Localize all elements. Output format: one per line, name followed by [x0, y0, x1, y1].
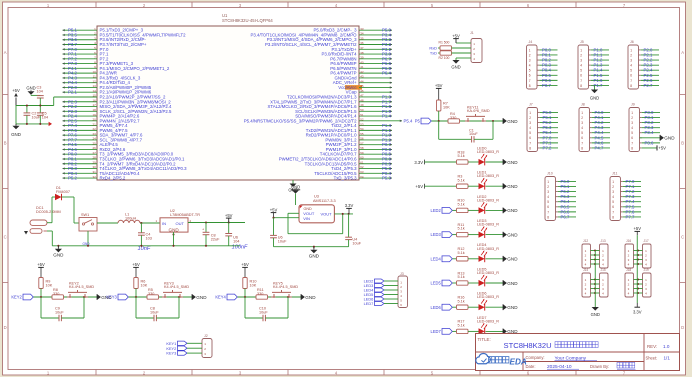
svg-text:J5: J5 [580, 40, 584, 44]
svg-text:22uF: 22uF [211, 238, 220, 242]
svg-text:5: 5 [547, 200, 549, 204]
U1 pin 14 (P2.1) [63, 89, 152, 95]
power flag +5V (J9 pin 8) [642, 145, 666, 150]
svg-text:1: 1 [529, 48, 531, 52]
capacitor C6 104 [225, 223, 239, 246]
svg-text:TxD_3/P5.3: TxD_3/P5.3 [334, 176, 358, 181]
svg-text:J1: J1 [470, 31, 474, 35]
svg-text:6: 6 [529, 136, 531, 140]
MCU U1 body [97, 26, 359, 180]
node LED5 flag (J3) [364, 292, 398, 297]
wire key row [34, 296, 98, 298]
ground flag (LED5) [503, 280, 507, 286]
svg-text:EDA: EDA [510, 357, 527, 366]
svg-text:D: D [4, 325, 7, 330]
ground flag (U3 rail) [313, 247, 315, 250]
wire J5 pin 7 net P1.6 [591, 78, 609, 83]
regulator U2 L78M05ABDT-TR [156, 209, 201, 232]
node LED7 flag (J3) [364, 301, 398, 306]
svg-text:44: 44 [360, 79, 364, 83]
svg-text:5: 5 [580, 69, 582, 73]
op MCU U1 designator [222, 13, 273, 23]
wire J5 pin 1 net P1.0 [591, 47, 609, 52]
ground under U1 [288, 180, 297, 193]
svg-text:K4.4*4.5_SMD: K4.4*4.5_SMD [69, 285, 94, 289]
node LED7 / LED row LED7 [431, 329, 457, 335]
wire J8 pin 3 net P4.2 [592, 120, 610, 125]
svg-text:12: 12 [92, 79, 96, 83]
svg-text:VOUT: VOUT [303, 211, 315, 216]
wire J11 pin 5 net P7.4 [623, 199, 641, 204]
U1 pin 64 (TxD_3) [334, 175, 392, 181]
svg-text:STC8H8K32U: STC8H8K32U [504, 341, 552, 350]
svg-text:3.3V: 3.3V [414, 160, 423, 165]
svg-text:IN: IN [162, 221, 166, 226]
svg-text:3: 3 [580, 58, 582, 62]
connector J8 [579, 103, 592, 152]
svg-text:8: 8 [631, 146, 633, 150]
node LED2 flag (J3) [364, 279, 398, 284]
svg-text:REV:: REV: [647, 344, 657, 349]
DrawnBy field [590, 362, 636, 369]
U1 pin 33 (P5.0) [314, 27, 392, 33]
connector J5 [578, 40, 591, 89]
svg-text:7: 7 [631, 141, 633, 145]
svg-text:8: 8 [529, 84, 531, 88]
wire J11 pin 2 net P7.1 [623, 184, 641, 189]
U1 pin 52 (P5.4) [244, 118, 413, 124]
svg-text:J19: J19 [644, 268, 649, 272]
wire key row [129, 296, 193, 298]
capacitor C1 10uF [439, 121, 493, 143]
svg-text:4: 4 [547, 195, 549, 199]
svg-text:5: 5 [612, 200, 614, 204]
inductor L1 100uH [118, 212, 140, 223]
svg-text:J10: J10 [547, 172, 553, 176]
wire J5 pin 3 net P1.2 [591, 58, 609, 63]
U1 pin 32 (RxD4_2) [63, 175, 126, 181]
svg-text:19: 19 [92, 113, 96, 117]
svg-text:63: 63 [360, 170, 364, 174]
U1 pin 38 (P3.0) [322, 51, 393, 57]
node LED6 flag (J3) [364, 297, 398, 302]
svg-text:1: 1 [581, 111, 583, 115]
svg-text:VIN: VIN [303, 216, 310, 221]
svg-text:41: 41 [360, 65, 364, 69]
connector J16 [625, 239, 634, 268]
wire J9 pin 4 net P3.3 [642, 125, 660, 130]
wire J6 pin 7 net P2.6 [641, 78, 659, 83]
svg-text:2: 2 [547, 185, 549, 189]
svg-text:+5V: +5V [452, 33, 460, 38]
ground flag (U3 top) [291, 185, 300, 205]
wire diode to SW1 [62, 197, 80, 223]
wire U3 vout loop [288, 213, 343, 233]
svg-text:R2 100: R2 100 [439, 56, 450, 60]
svg-text:J11: J11 [612, 172, 618, 176]
power flag +5V (KEY3 circuit) [132, 262, 140, 278]
svg-text:KEY4: KEY4 [215, 295, 226, 300]
svg-text:10uF: 10uF [55, 310, 64, 314]
svg-text:5: 5 [529, 69, 531, 73]
svg-text:10nF: 10nF [138, 246, 151, 252]
node KEY3 flag (J2) [166, 351, 202, 356]
node LED2 / LED row LED2 [431, 208, 457, 214]
svg-text:SW1: SW1 [81, 213, 89, 217]
wire J6 pin 4 net P2.3 [641, 63, 659, 68]
LED LED7 [477, 316, 503, 335]
svg-text:P6.7: P6.7 [561, 214, 570, 219]
svg-text:J16: J16 [626, 239, 631, 243]
wire J11 pin 3 net P7.2 [623, 189, 641, 194]
wire bottom of cluster [16, 106, 49, 124]
U1 pin 19 (PWM4P_2) [63, 113, 140, 119]
wire J8 pin 1 net P4.0 [592, 110, 610, 115]
ground flag (cluster bottom) [11, 124, 21, 137]
svg-text:330: 330 [450, 116, 456, 120]
svg-text:32: 32 [92, 175, 96, 179]
svg-text:31: 31 [92, 170, 96, 174]
resistor R7 10K [437, 100, 451, 121]
wire J6 pin 6 net P2.5 [641, 73, 659, 78]
svg-text:J13: J13 [601, 239, 606, 243]
svg-text:P3.4: P3.4 [645, 130, 654, 135]
svg-text:7: 7 [581, 141, 583, 145]
capacitor C2 22uF [202, 223, 220, 246]
wire J8 pin 5 net P4.4 [592, 130, 610, 135]
key switch KEY5 [271, 296, 276, 298]
svg-text:57: 57 [360, 141, 364, 145]
resistor R11 330 [256, 288, 268, 299]
svg-text:5.1k: 5.1k [458, 324, 465, 328]
power flag +5V (U2 out) [228, 218, 230, 222]
svg-text:J12: J12 [583, 239, 588, 243]
svg-text:GND: GND [591, 312, 600, 317]
resistor R12 5.1k [457, 247, 479, 261]
svg-text:LED4: LED4 [431, 256, 442, 261]
svg-text:+5V: +5V [225, 213, 233, 218]
connector J18 [625, 268, 634, 297]
svg-text:8: 8 [547, 215, 549, 219]
U1 pin 46 (VCap) [346, 89, 392, 95]
svg-text:KA-6*6_SMD: KA-6*6_SMD [467, 109, 490, 113]
svg-text:C: C [4, 235, 7, 240]
resistor R10 5.1k [457, 199, 479, 213]
svg-text:53: 53 [360, 122, 364, 126]
ground flag (J9 pin 6) [640, 135, 676, 141]
svg-text:34: 34 [360, 32, 364, 36]
key switch KEY11 [465, 120, 470, 122]
svg-text:GND: GND [305, 295, 316, 300]
U1 pin 25 (ALE) [63, 141, 119, 147]
svg-text:1: 1 [612, 180, 614, 184]
svg-text:A: A [681, 50, 684, 55]
wire J4 pin 5 net P0.4 [539, 68, 557, 73]
U1 pin 35 (P3.3) [267, 36, 392, 42]
REV field [647, 344, 670, 349]
svg-text:10K: 10K [46, 283, 53, 287]
svg-text:LED-0803_R: LED-0803_R [477, 223, 499, 227]
node LED3 / LED row LED3 [431, 232, 457, 238]
wire J8 pin 8 net P4.7 [592, 145, 610, 150]
wire J5 pin 8 net P1.7 [591, 83, 609, 88]
ground flag (KEY5) [301, 294, 305, 300]
LED LED2 [477, 195, 503, 214]
svg-text:GND: GND [451, 65, 460, 70]
svg-text:26: 26 [92, 146, 96, 150]
connector J11 [610, 172, 623, 221]
svg-text:6: 6 [529, 74, 531, 78]
svg-text:4: 4 [612, 195, 614, 199]
svg-text:GND: GND [507, 232, 518, 237]
node KEY2 flag (J2) [166, 346, 202, 351]
svg-text:3: 3 [547, 190, 549, 194]
svg-text:40: 40 [360, 60, 364, 64]
key switch KEY3 [162, 296, 167, 298]
svg-text:10K: 10K [443, 105, 450, 109]
capacitor U6 10uF [270, 218, 287, 247]
diode D1 FM4007 [55, 186, 70, 200]
svg-text:OUT: OUT [176, 221, 185, 226]
svg-text:AMS1117-3.3: AMS1117-3.3 [313, 199, 336, 203]
svg-text:+5V: +5V [241, 262, 249, 267]
svg-text:RxD4_2/P5.2: RxD4_2/P5.2 [100, 176, 126, 181]
svg-text:Company:: Company: [526, 355, 545, 360]
svg-text:+5V: +5V [37, 262, 45, 267]
U1 pin 2 (P3.5) [63, 32, 187, 38]
svg-text:56: 56 [360, 137, 364, 141]
svg-text:GND: GND [53, 253, 64, 258]
svg-text:VOUT: VOUT [320, 211, 332, 216]
wire J10 pin 3 net P6.2 [558, 189, 576, 194]
U1 pin 11 (P4.3) [63, 75, 141, 81]
connector J10 [545, 172, 558, 221]
svg-text:P5: P5 [415, 119, 421, 124]
wire J5 pin 4 net P1.3 [591, 63, 609, 68]
svg-text:P2.7: P2.7 [644, 83, 653, 88]
svg-text:7: 7 [529, 79, 531, 83]
U1 pin 10 (P4.2) [63, 70, 117, 76]
svg-text:Sheet:: Sheet: [646, 355, 658, 360]
svg-text:5.1k: 5.1k [458, 251, 465, 255]
U1 pin 37 (P3.1) [332, 46, 393, 52]
ground flag (LED0) [503, 159, 507, 165]
svg-text:2: 2 [580, 53, 582, 57]
wire jumper 3.3V column [636, 235, 638, 303]
resistor R10 10K [243, 278, 257, 298]
svg-text:TITLE:: TITLE: [478, 337, 491, 342]
ground flag (LED7) [503, 329, 507, 335]
svg-text:J7: J7 [529, 103, 533, 107]
svg-text:GND: GND [169, 227, 180, 232]
svg-text:LED3: LED3 [431, 232, 442, 237]
svg-text:+5V: +5V [633, 226, 641, 231]
svg-text:55: 55 [360, 132, 364, 136]
wire J10 pin 8 net P6.7 [558, 214, 576, 219]
ground flag (J5 pin 8) [589, 81, 600, 101]
connector J1 [470, 31, 482, 63]
svg-text:14: 14 [92, 89, 96, 93]
wire J10 pin 4 net P6.3 [558, 194, 576, 199]
svg-text:50: 50 [360, 108, 364, 112]
U1 pin 13 (P2.0) [63, 84, 152, 90]
resistor R17 5.1k [457, 320, 479, 334]
svg-text:36: 36 [360, 41, 364, 45]
svg-text:1: 1 [580, 48, 582, 52]
svg-text:45: 45 [360, 84, 364, 88]
svg-text:4: 4 [631, 126, 633, 130]
svg-text:+5V: +5V [12, 88, 20, 93]
svg-text:2: 2 [581, 116, 583, 120]
wires J16-J17 [634, 249, 643, 265]
svg-text:20: 20 [92, 118, 96, 122]
U1 pin 28 (T3CLKO_2) [63, 156, 186, 162]
resistor R8 330 [52, 288, 64, 299]
svg-text:35: 35 [360, 36, 364, 40]
svg-text:1: 1 [631, 111, 633, 115]
node 3.3V / LED row LED0 [414, 160, 456, 165]
U1 pin 6 (P7.1) [63, 51, 110, 57]
svg-text:+5V: +5V [658, 146, 666, 151]
svg-text:3: 3 [529, 58, 531, 62]
ground rail (U3) [274, 246, 349, 248]
ground flag (rail) [57, 246, 59, 249]
regulator U3 AMS1117-3.3 [299, 195, 336, 223]
ground flag (KEY2) [97, 294, 101, 300]
power flag +5V (KEY5 circuit) [241, 262, 249, 278]
wires J18-J19 [634, 278, 643, 294]
svg-text:U3: U3 [314, 195, 319, 199]
svg-text:2: 2 [630, 53, 632, 57]
LED LED1 [477, 171, 503, 190]
power flag +5V (U3 in) [270, 207, 278, 217]
svg-text:10: 10 [92, 70, 96, 74]
svg-text:GND: GND [507, 119, 518, 124]
svg-text:GND: GND [196, 295, 207, 300]
svg-text:64: 64 [360, 175, 364, 179]
svg-text:104: 104 [37, 89, 43, 93]
wire J7 pin 7 net P7.1 [540, 140, 558, 145]
svg-text:LED-0803_R: LED-0803_R [477, 295, 499, 299]
svg-text:8: 8 [529, 146, 531, 150]
svg-text:6: 6 [580, 74, 582, 78]
svg-text:8: 8 [630, 84, 632, 88]
svg-text:P5.2: P5.2 [68, 176, 77, 181]
svg-text:P0.7: P0.7 [542, 83, 551, 88]
svg-text:P2.1: P2.1 [68, 90, 77, 95]
svg-text:7: 7 [580, 79, 582, 83]
svg-text:48: 48 [360, 98, 364, 102]
svg-text:1: 1 [630, 48, 632, 52]
wire J10 pin 2 net P6.1 [558, 184, 576, 189]
wire J4 pin 1 net P0.0 [539, 47, 557, 52]
LED LED6 [477, 292, 503, 311]
svg-text:21: 21 [92, 122, 96, 126]
power flag 3.3V [345, 203, 354, 214]
svg-text:J18: J18 [626, 268, 631, 272]
U1 pin 48 (XTAL1) [270, 98, 392, 104]
svg-text:KEY2: KEY2 [11, 295, 22, 300]
capacitor C4 103 [138, 222, 152, 246]
wire J10 pin 7 net P6.6 [558, 209, 576, 214]
wire J7 pin 5 net P5.4 [540, 130, 558, 135]
svg-text:K4.4*4.5_SMD: K4.4*4.5_SMD [273, 285, 298, 289]
resistor R1 500 [429, 41, 471, 51]
svg-text:LED-0803_R: LED-0803_R [477, 247, 499, 251]
svg-text:5: 5 [529, 131, 531, 135]
connector J6 [628, 40, 641, 89]
resistor R18 5.1k [457, 150, 479, 164]
power flag +5V (jumper cluster) [633, 226, 641, 235]
svg-text:16: 16 [92, 98, 96, 102]
U1 pin 15 (P2.2) [92, 94, 166, 100]
capacitor C10 10uF [245, 297, 288, 321]
U1 pin 26 (RxD2_2) [63, 146, 126, 152]
svg-text:10uF: 10uF [278, 240, 287, 244]
svg-text:+5V: +5V [415, 184, 423, 189]
U1 pin 24 (SCL_3) [63, 137, 143, 143]
ground flag (LED2) [503, 208, 507, 214]
U1 pin 41 (P6.5) [330, 65, 392, 71]
svg-text:J14: J14 [583, 268, 588, 272]
ground flag (C3) [26, 86, 35, 95]
U1 pin 20 (PWM4N_2) [63, 118, 141, 124]
svg-text:2: 2 [612, 185, 614, 189]
svg-text:K4.4*4.5_SMD: K4.4*4.5_SMD [164, 285, 189, 289]
svg-text:49: 49 [360, 103, 364, 107]
svg-text:5.1k: 5.1k [458, 275, 465, 279]
wire J5 pin 2 net P1.1 [591, 52, 609, 57]
svg-text:LED7: LED7 [364, 301, 374, 306]
capacitor U4 10uF [345, 214, 362, 247]
U1 pin 18 (SCLK_2) [63, 108, 173, 114]
net flag arrow [49, 122, 52, 126]
junction dots (cluster) [26, 104, 41, 125]
capacitor C9 10uF [41, 297, 84, 321]
wire J8 pin 6 net P4.5 [592, 135, 610, 140]
svg-text:6: 6 [581, 136, 583, 140]
wire J7 pin 6 net P7.0 [540, 135, 558, 140]
svg-text:P4.7: P4.7 [595, 145, 604, 150]
svg-text:3: 3 [612, 190, 614, 194]
svg-text:58: 58 [360, 146, 364, 150]
svg-text:J2: J2 [204, 334, 208, 338]
svg-text:1: 1 [547, 180, 549, 184]
wire KEY11 row [432, 120, 504, 122]
capacitor C8 10uF [136, 297, 179, 321]
svg-text:52: 52 [360, 118, 364, 122]
svg-text:L78M05ABDT-TR: L78M05ABDT-TR [170, 213, 200, 217]
svg-text:10uF: 10uF [32, 115, 41, 119]
U1 pin 34 (P3.4) [251, 32, 392, 38]
ground flag (LED4) [503, 256, 507, 262]
U1 pin 44 (ADC_VRef+) [333, 79, 392, 85]
U1 pin 59 (T4CLKO) [320, 151, 392, 157]
power flag +5V (J1) [452, 33, 471, 43]
svg-text:23: 23 [92, 132, 96, 136]
node LED3 flag (J3) [364, 283, 398, 288]
svg-text:KEY3: KEY3 [166, 351, 176, 356]
U1 pin 42 (P6.4) [330, 70, 392, 76]
svg-text:6: 6 [612, 205, 614, 209]
wires J12-J13 [591, 249, 600, 265]
U1 pin 12 (P4.4) [63, 79, 131, 85]
connector J12 [582, 239, 591, 268]
svg-text:LED-0803_R: LED-0803_R [477, 198, 499, 202]
wire U3 vin [272, 217, 299, 219]
svg-text:330: 330 [53, 292, 59, 296]
LED LED3 [477, 219, 503, 238]
